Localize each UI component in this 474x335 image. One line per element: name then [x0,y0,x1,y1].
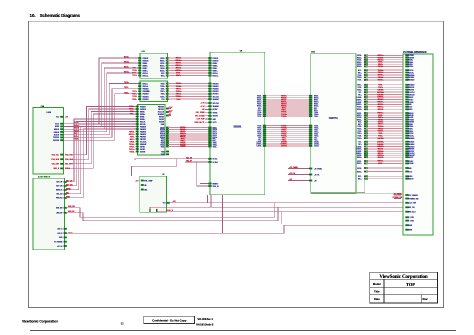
wire bus CN2T/TA to panel group 4 [356,99,413,112]
wire bus LVDS A U1 to CN2T/TA [267,96,309,118]
pins of U30 [138,57,141,59]
svg-text:RXIN1+: RXIN1+ [140,119,145,121]
svg-text:TXO0-: TXO0- [378,66,384,68]
svg-text:MENU: MENU [66,189,72,191]
svg-text:LVDS1+: LVDS1+ [356,153,362,155]
svg-text:RXIN0-: RXIN0- [213,63,218,65]
svg-text:P1 PANEL INTERFACE: P1 PANEL INTERFACE [403,51,427,54]
svg-text:GNDA: GNDA [65,167,71,170]
svg-text:RXCLK+: RXCLK+ [408,136,414,138]
svg-text:RXO1-: RXO1- [357,113,362,115]
svg-text:+1.8V: +1.8V [200,103,205,105]
svg-text:LVDS0+: LVDS0+ [314,144,320,146]
svg-text:RXIN1-: RXIN1- [140,116,145,118]
svg-text:X_STB: X_STB [408,217,414,219]
svg-text:DVDD18: DVDD18 [53,140,59,142]
svg-text:RXO0-: RXO0- [160,58,165,60]
svg-text:POWER_SW: POWER_SW [408,198,418,200]
svg-text:10.: 10. [30,13,36,18]
regulator U5 [140,176,167,212]
svg-text:TXC-: TXC- [258,138,262,140]
svg-text:TXO2-: TXO2- [132,96,137,98]
svg-text:RXIN0-: RXIN0- [408,124,413,126]
power and strap labels of U1 [208,102,211,104]
svg-text:TXO1-: TXO1- [213,146,218,148]
svg-text:TXO1-: TXO1- [161,146,166,148]
pins misc of U1 [208,183,211,185]
svg-text:PWR: PWR [66,197,71,199]
svg-text:TXC+: TXC+ [314,140,318,142]
pin +5V of CN1 [60,116,63,118]
svg-text:VA1912wb-2: VA1912wb-2 [196,323,214,327]
svg-text:RXO1+: RXO1+ [357,62,362,64]
wire CN2T/TA bottom bus [311,179,403,193]
svg-text:RXIN0+: RXIN0+ [213,65,218,67]
svg-text:DVDD18: DVDD18 [140,109,146,111]
svg-text:RXO1+: RXO1+ [357,115,362,117]
svg-text:KEY_DN: KEY_DN [66,185,73,187]
svg-text:TXO2+: TXO2+ [357,90,362,92]
svg-text:OSC_XI24M: OSC_XI24M [196,111,206,114]
svg-text:RXCLK-: RXCLK- [143,73,149,75]
svg-text:LVDS1-: LVDS1- [357,102,363,104]
svg-text:RXO0+: RXO0+ [124,62,129,64]
svg-text:PVDD33: PVDD33 [408,119,414,121]
svg-text:SCL/CLK: SCL/CLK [213,96,220,98]
svg-text:TXO1+: TXO1+ [314,132,319,134]
svg-text:LVDS0-: LVDS0- [357,146,363,148]
svg-text:+5V: +5V [314,180,317,182]
svg-text:RXC-: RXC- [161,139,165,141]
svg-text:PVDD33: PVDD33 [140,106,146,108]
svg-text:SOG/IN: SOG/IN [159,121,164,123]
pins TMDS of U32 [166,127,169,129]
svg-text:HSYNC: HSYNC [213,109,218,111]
svg-text:KEY_DN: KEY_DN [56,186,62,188]
svg-text:RESET#: RESET# [213,183,219,185]
svg-text:Date: Date [374,297,380,301]
svg-text:RXIN1+: RXIN1+ [408,131,413,133]
svg-text:+1.8V: +1.8V [168,107,173,109]
svg-text:TXO1-: TXO1- [257,116,262,118]
svg-text:RXO1-: RXO1- [160,131,165,133]
svg-text:PVDD33: PVDD33 [408,55,414,57]
svg-text:RXO1+: RXO1+ [257,102,262,104]
wire junction riser 3 [280,212,282,224]
svg-text:TXO0+: TXO0+ [160,144,165,146]
svg-text:PB1/TD1: PB1/TD1 [158,109,164,111]
svg-text:+5V: +5V [65,117,69,119]
svg-text:GND: GND [408,104,411,106]
svg-text:+5V_PA: +5V_PA [289,172,296,175]
svg-text:SCL/CLK: SCL/CLK [158,111,165,113]
wire USB_DP run [66,207,278,220]
svg-text:PB1/TD1: PB1/TD1 [140,139,146,141]
wire bus CN2T/TA to panel group 6 [357,125,414,140]
svg-text:VSYNC: VSYNC [408,161,413,163]
svg-text:RXC+: RXC+ [161,75,165,77]
svg-text:RXO2-: RXO2- [357,168,362,170]
pins LVDS B in of CN2T/TA [309,125,312,127]
svg-text:TXO1+: TXO1+ [160,91,165,93]
svg-text:RXC+: RXC+ [358,72,362,74]
svg-text:PB1/TD1: PB1/TD1 [213,94,219,96]
svg-text:RXO2+: RXO2+ [314,106,319,108]
pins video of U1 [208,83,211,85]
svg-text:TXO1-: TXO1- [357,131,362,133]
svg-text:U31: U31 [147,91,150,93]
svg-text:RXO1-: RXO1- [257,100,262,102]
pins of U31 [138,83,141,85]
svg-text:TVDD: TVDD [161,151,165,153]
svg-text:RXO0+: RXO0+ [357,109,362,111]
svg-text:TXO2-: TXO2- [357,136,362,138]
svg-text:TXO2-: TXO2- [314,134,319,136]
pins LVDS A out of U1 [263,95,266,97]
schematic sheet border frame [29,21,444,307]
svg-text:SCL/CLK: SCL/CLK [408,153,415,155]
svg-text:RXIN1-: RXIN1- [143,68,148,70]
svg-text:RXO0+: RXO0+ [160,60,165,62]
svg-text:KEY_UP: KEY_UP [56,182,62,184]
svg-text:TOP: TOP [406,282,415,287]
svg-text:RXO1-: RXO1- [160,63,165,65]
svg-text:TXO0+: TXO0+ [314,114,319,116]
svg-text:LVDS1+: LVDS1+ [356,104,362,106]
wire nest CN1 to U30/U31 [64,58,138,124]
svg-text:USB_DP: USB_DP [68,211,75,213]
svg-text:RXIN0+: RXIN0+ [408,126,413,128]
pins power of CN2T/TA [309,168,312,170]
svg-text:RXO1-: RXO1- [124,67,129,69]
svg-text:+3.3V: +3.3V [168,111,173,113]
pins RGB/HV of CN1 [60,123,63,125]
svg-text:RXO2-: RXO2- [378,109,384,111]
svg-text:RXIN1-: RXIN1- [408,64,413,66]
svg-text:TXO1-: TXO1- [180,146,186,148]
svg-text:RXCLK-: RXCLK- [143,83,149,85]
svg-text:RXC-: RXC- [378,163,383,165]
pins analog of U1 [208,57,211,59]
wire +1.8V_S rail [150,207,157,212]
svg-text:DVDD18: DVDD18 [143,60,149,62]
pins input of U5 [141,180,144,182]
svg-text:TXC+: TXC+ [358,94,362,96]
IC U1 scaler (main controller) [210,52,265,195]
svg-text:UBL: UBL [144,189,147,191]
svg-text:+5V: +5V [168,114,172,116]
wire +3.3V_S rail [168,202,403,204]
svg-text:+12V_INV: +12V_INV [408,203,417,205]
svg-text:RXO2-: RXO2- [160,135,165,137]
svg-text:RXC-: RXC- [161,73,165,75]
svg-text:33: 33 [121,322,124,326]
svg-text:LVDS1-: LVDS1- [281,146,288,148]
svg-text:RXC+: RXC+ [358,179,362,181]
svg-text:TXO2+: TXO2+ [257,136,262,138]
svg-text:TXC-: TXC- [176,99,181,101]
svg-text:RXIN0+: RXIN0+ [143,65,148,67]
svg-text:RXO2-: RXO2- [357,117,362,119]
svg-text:RXO0-: RXO0- [357,155,362,157]
svg-text:RED-IN: RED-IN [408,179,413,181]
wire hairpin drop to U1 [197,162,209,186]
svg-text:RXO0-: RXO0- [357,55,362,57]
svg-text:TXC-: TXC- [161,99,165,101]
connector CN3 panel interface [403,54,433,235]
pins key matrix of CN5 [64,181,67,183]
pins left of U32 [136,106,139,108]
pins USB of CN5 [64,207,67,209]
svg-text:TXO0-: TXO0- [161,143,166,145]
svg-text:HSYNC: HSYNC [408,157,413,159]
wire bus U30 to U1 [168,58,209,77]
wire bus LVDS B U1 to CN2T/TA [267,125,309,147]
svg-text:VSYNC: VSYNC [140,149,145,151]
svg-text:TGND: TGND [161,154,165,156]
svg-text:TXO1-: TXO1- [132,75,137,77]
svg-text:LVDS0+: LVDS0+ [356,149,362,151]
svg-text:VGA_SCL: VGA_SCL [65,153,73,156]
svg-text:GND: GND [408,168,411,170]
svg-text:+3.3V: +3.3V [200,106,205,108]
svg-text:SCL/CLK: SCL/CLK [213,103,220,105]
svg-text:RED-IN: RED-IN [54,129,59,131]
svg-text:+5V_LE: +5V_LE [57,246,62,248]
svg-text:RXC+: RXC+ [161,141,165,143]
svg-text:RXO0-: RXO0- [124,57,129,59]
svg-text:TXO1+: TXO1+ [357,133,362,135]
svg-text:HSYNC: HSYNC [408,97,413,99]
wire nest CN1 DDC to U32 [70,107,136,155]
pins LVDS A in of CN2T/TA [309,95,312,97]
svg-text:RXO2+: RXO2+ [213,137,218,139]
svg-text:TXO1-: TXO1- [257,130,262,132]
svg-text:M_SCL: M_SCL [213,159,218,161]
svg-text:TXO0-: TXO0- [161,83,166,85]
svg-text:TXO2-: TXO2- [357,87,362,89]
svg-text:RXO1+: RXO1+ [160,133,165,135]
svg-text:RXC-: RXC- [314,108,318,110]
svg-text:GND: GND [213,119,216,121]
svg-text:PB1/TD1: PB1/TD1 [408,151,414,153]
svg-text:HSYNC: HSYNC [140,146,145,148]
svg-text:TXO0+: TXO0+ [160,86,165,88]
svg-text:TXO1-: TXO1- [314,116,319,118]
svg-text:DVDD18: DVDD18 [408,122,414,124]
svg-text:RXO1-: RXO1- [213,131,218,133]
svg-text:TXO2+: TXO2+ [357,138,362,140]
svg-text:TXO0+: TXO0+ [357,128,362,130]
svg-text:RXO2+: RXO2+ [160,70,165,72]
pins TMDS in of U1 [208,127,211,129]
svg-text:VGA_SDA: VGA_SDA [65,158,74,161]
pin output of U5 [167,202,170,204]
pins I2C of U1 [208,158,211,160]
svg-text:TXO1-: TXO1- [314,130,319,132]
svg-text:PVDD33: PVDD33 [213,58,219,60]
svg-text:RXO1-: RXO1- [357,161,362,163]
svg-text:PB0/TD0: PB0/TD0 [158,106,164,108]
wire bus CN2T/TA to panel group 1 [357,55,414,69]
svg-text:GRN-IN: GRN-IN [54,132,59,134]
svg-text:RXCLK+: RXCLK+ [408,72,414,74]
svg-text:PB0/TD0: PB0/TD0 [143,99,149,101]
svg-text:CAP_1V8F: CAP_1V8F [197,118,205,121]
wire USB_DM run [66,203,275,218]
svg-text:SEL: SEL [66,193,69,195]
svg-text:Schematic Diagrams: Schematic Diagrams [40,13,81,18]
svg-text:PB0/TD0: PB0/TD0 [408,149,414,151]
wire bus CN2T/TA to panel group 11 [358,175,413,180]
connector CN2T/TA (LVDS link) [311,54,356,194]
svg-text:RXO0-: RXO0- [213,127,218,129]
pins LED of CN5 [64,228,67,230]
svg-text:+5V_PANEL: +5V_PANEL [408,194,418,197]
wire riser U1 bottom [207,195,209,203]
svg-text:TXC-: TXC- [314,138,318,140]
svg-text:DVDD18: DVDD18 [408,57,414,59]
svg-text:VCC5: VCC5 [55,124,59,126]
svg-text:LVDS0-: LVDS0- [357,97,363,99]
svg-text:SCL/CLK: SCL/CLK [140,141,147,143]
svg-text:TXO1-: TXO1- [161,89,166,91]
svg-text:PWL_USBP: PWL_USBP [144,180,152,182]
svg-text:RXIN0-: RXIN0- [408,60,413,62]
connector CN1 (VGA input) [33,108,64,175]
svg-text:RXO2+: RXO2+ [357,119,362,121]
svg-text:TXO0-: TXO0- [132,70,137,72]
wire nest keyboard to U32 [64,119,136,182]
svg-text:GRN-IN: GRN-IN [408,115,413,117]
svg-text:RXIN1+: RXIN1+ [213,70,218,72]
svg-text:RXIN1-: RXIN1- [213,68,218,70]
svg-text:RXC+: RXC+ [258,110,262,112]
svg-text:OSC_XO24M: OSC_XO24M [195,114,205,117]
svg-text:RXIN1+: RXIN1+ [143,70,148,72]
svg-text:VO1: VO1 [163,203,166,205]
svg-text:TXC-: TXC- [358,142,362,144]
wire bus CN2T/TA to panel group 5 [357,112,414,126]
svg-text:RXO2+: RXO2+ [357,171,362,173]
svg-text:RXCLK+: RXCLK+ [140,124,146,126]
svg-text:VCC5: VCC5 [213,122,217,124]
svg-text:RXO0-: RXO0- [357,107,362,109]
svg-text:RXCLK+: RXCLK+ [213,75,219,77]
svg-text:RXIN1+: RXIN1+ [408,66,413,68]
svg-text:RXO2-: RXO2- [314,104,319,106]
svg-text:RXO2+: RXO2+ [357,66,362,68]
svg-text:RXO1-: RXO1- [357,60,362,62]
svg-text:TXO1-: TXO1- [124,87,129,89]
svg-text:TXO0+: TXO0+ [257,114,262,116]
svg-text:PO_SENSE: PO_SENSE [54,242,62,244]
svg-text:RXO0+: RXO0+ [160,129,165,131]
svg-text:PVDD33: PVDD33 [53,137,59,139]
svg-text:PB0/TD0: PB0/TD0 [140,136,146,138]
svg-text:PWR_KE: PWR_KE [56,198,62,200]
wire panel ground return [311,193,403,195]
svg-text:RXO2-: RXO2- [257,104,262,106]
svg-text:TXO2-: TXO2- [257,134,262,136]
svg-text:TXO2+: TXO2+ [160,96,165,98]
svg-text:ViewSonic Corporation: ViewSonic Corporation [379,275,427,280]
svg-text:RXO1+: RXO1+ [357,163,362,165]
svg-text:RXO2+: RXO2+ [160,137,165,139]
svg-text:TXO0-: TXO0- [314,112,319,114]
svg-text:HSYNC: HSYNC [159,116,164,118]
pins bottom of U5 [149,209,151,212]
wire bus CN2T/TA to panel group 7 [356,141,414,151]
svg-text:TXO2+: TXO2+ [314,136,319,138]
svg-text:TXO0-: TXO0- [257,112,262,114]
svg-text:RXCLK-: RXCLK- [140,121,146,123]
svg-text:RXC-: RXC- [213,139,217,141]
svg-text:TXC+: TXC+ [130,114,134,116]
svg-text:VSYNC: VSYNC [159,119,164,121]
svg-text:TXC+: TXC+ [258,140,262,142]
wire bus CN2T/TA to panel group 9 [357,160,413,165]
svg-text:LVDS0-: LVDS0- [314,142,320,144]
wire hairpin U32 to bus [135,159,208,160]
svg-text:RXO1+: RXO1+ [314,102,319,104]
svg-text:RXO0-: RXO0- [314,96,319,98]
svg-text:RXCLK+: RXCLK+ [143,75,149,77]
svg-text:VCC5: VCC5 [408,107,412,109]
svg-text:MENU_K: MENU_K [56,190,63,192]
svg-text:LVDS0+: LVDS0+ [356,99,362,101]
svg-text:USB_DM: USB_DM [68,206,75,208]
svg-text:RXC-: RXC- [358,70,362,72]
svg-text:+5V_PANEL: +5V_PANEL [289,166,298,169]
svg-text:TXO2+: TXO2+ [129,109,134,111]
pins spare of U32 [166,151,169,153]
svg-text:RXO2-: RXO2- [357,64,362,66]
svg-text:+5V_PANEL: +5V_PANEL [393,193,402,196]
title block rows [370,278,438,280]
svg-text:RED-IN: RED-IN [408,113,413,115]
svg-text:LVDS0-: LVDS0- [377,138,384,140]
svg-text:RXIN0+: RXIN0+ [408,62,413,64]
wire VO3 rail [157,211,160,213]
wire bus CN2T/TA to panel group 10 [357,167,412,173]
pins DDC of CN1 [60,154,63,156]
svg-text:BLU-IN: BLU-IN [54,135,59,137]
svg-text:LVDS0+: LVDS0+ [256,144,262,146]
svg-text:SCL/CLK: SCL/CLK [408,92,415,94]
svg-text:SOG/IN: SOG/IN [140,151,145,153]
title block frame [370,272,438,303]
svg-text:CN2T/TA: CN2T/TA [329,117,338,120]
svg-text:RXO0-: RXO0- [160,127,165,129]
svg-text:RXCLK+: RXCLK+ [143,86,149,88]
wire bus CN2T/TA to panel group 2 [357,69,414,82]
svg-text:RXCLK-: RXCLK- [408,70,414,72]
svg-text:TXO0-: TXO0- [257,125,262,127]
IC U31 (video buffer) [140,81,168,102]
svg-text:RXC+: RXC+ [314,110,318,112]
wire bus U32 to U1 [168,127,208,148]
power pins of U32 [166,108,169,110]
svg-text:ViewSonic Corporation: ViewSonic Corporation [22,320,58,324]
svg-text:SOG/IN: SOG/IN [408,163,413,165]
svg-text:PB0/TD0: PB0/TD0 [213,91,219,93]
svg-text:Y_STB: Y_STB [408,221,414,223]
svg-text:TXO0-: TXO0- [357,75,362,77]
svg-text:+5V: +5V [202,109,206,111]
pins LVDS B out of U1 [263,125,266,127]
svg-text:TXO1+: TXO1+ [124,92,129,94]
